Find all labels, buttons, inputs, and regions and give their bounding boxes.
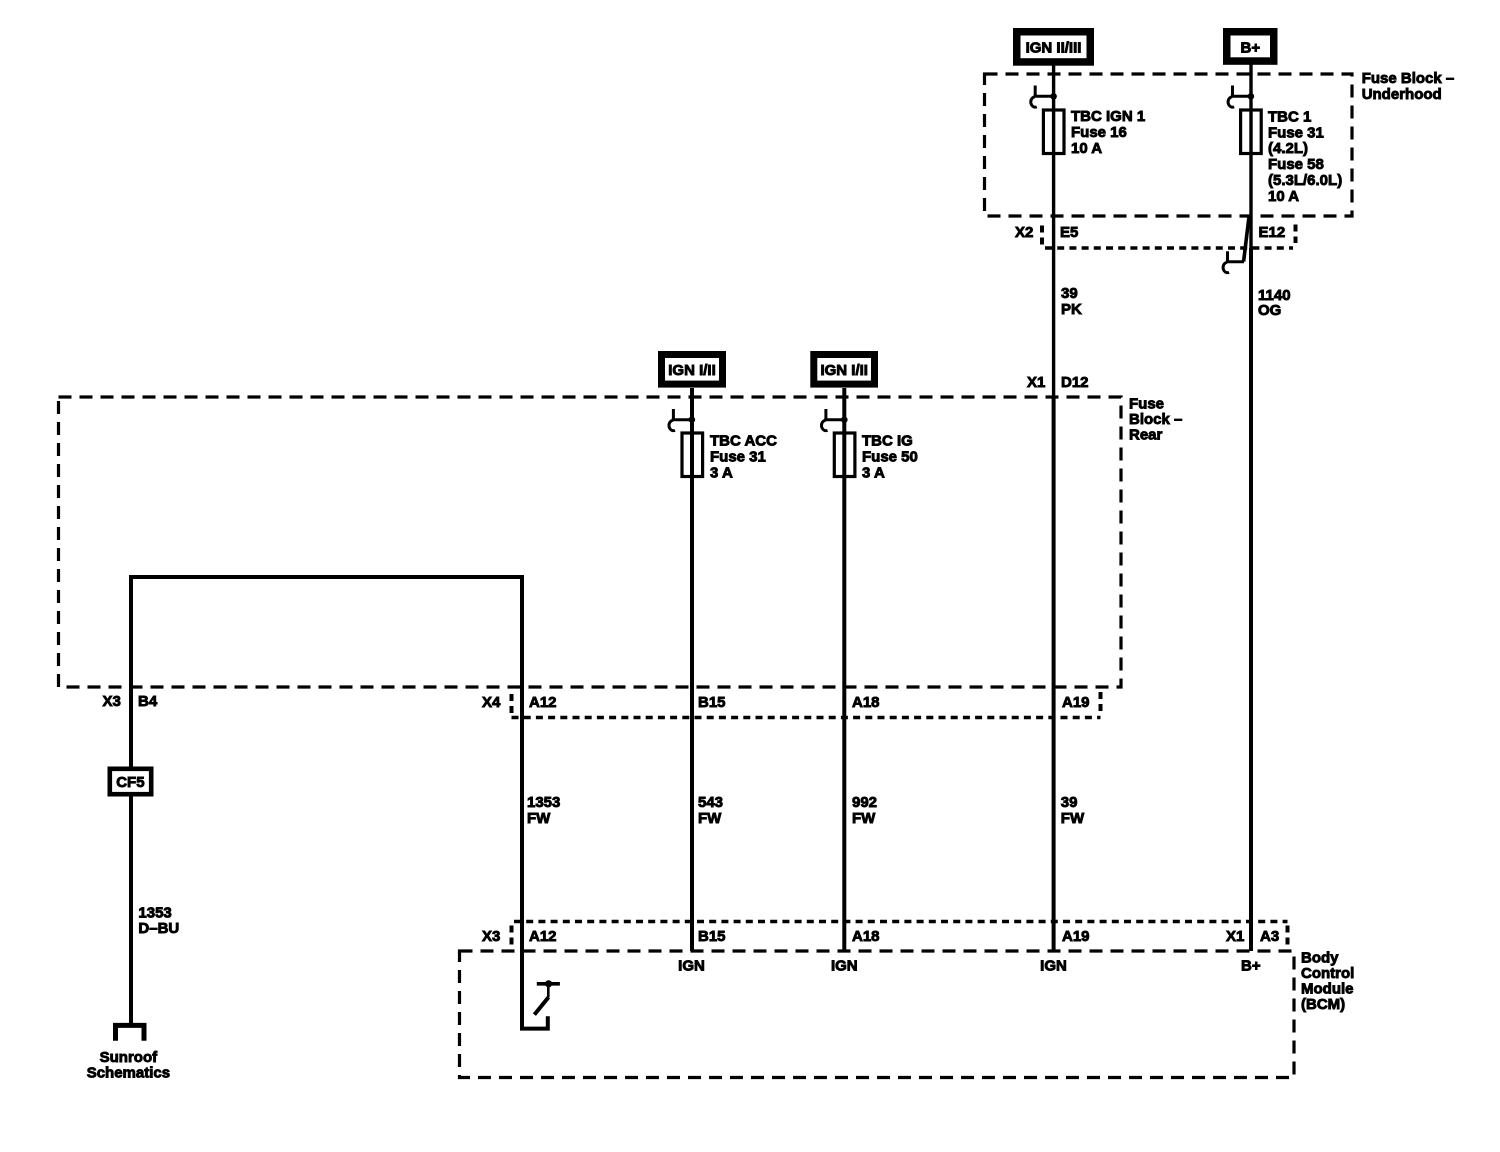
svg-text:A12: A12 [529,928,557,945]
svg-text:Block –: Block – [1129,411,1182,428]
svg-text:10 A: 10 A [1268,188,1299,205]
svg-text:992: 992 [852,794,877,811]
svg-text:X4: X4 [482,694,501,711]
svg-text:TBC 1: TBC 1 [1268,108,1311,125]
svg-text:B4: B4 [138,693,158,710]
svg-text:E12: E12 [1259,224,1286,241]
svg-text:FW: FW [852,810,876,827]
svg-text:IGN: IGN [678,958,705,975]
svg-text:TBC ACC: TBC ACC [710,433,777,450]
svg-text:Body: Body [1301,950,1339,967]
svg-text:543: 543 [698,794,723,811]
svg-text:Fuse: Fuse [1129,396,1164,413]
svg-text:3 A: 3 A [710,465,733,482]
svg-text:A12: A12 [529,694,557,711]
svg-text:X3: X3 [482,928,500,945]
svg-text:X1: X1 [1226,928,1244,945]
svg-text:Underhood: Underhood [1362,86,1442,103]
svg-text:Fuse 31: Fuse 31 [1268,124,1324,141]
svg-text:Fuse 58: Fuse 58 [1268,156,1324,173]
svg-text:IGN: IGN [831,958,858,975]
svg-text:FW: FW [1061,810,1085,827]
svg-text:IGN I/II: IGN I/II [820,362,868,379]
svg-text:Module: Module [1301,981,1354,998]
svg-text:A19: A19 [1062,928,1090,945]
svg-text:IGN II/III: IGN II/III [1026,39,1082,56]
svg-text:39: 39 [1061,285,1078,302]
svg-text:A3: A3 [1260,928,1279,945]
svg-text:1353: 1353 [138,905,171,922]
svg-text:A18: A18 [852,928,880,945]
svg-text:FW: FW [698,810,722,827]
svg-text:OG: OG [1258,302,1281,319]
svg-text:X2: X2 [1015,224,1033,241]
svg-text:39: 39 [1061,794,1078,811]
svg-text:CF5: CF5 [116,774,144,791]
svg-text:FW: FW [527,810,551,827]
svg-text:Rear: Rear [1129,427,1163,444]
svg-text:X3: X3 [103,693,121,710]
svg-text:Fuse 31: Fuse 31 [710,449,766,466]
svg-text:E5: E5 [1060,224,1078,241]
svg-text:TBC IG: TBC IG [862,433,913,450]
svg-text:Control: Control [1301,965,1354,982]
svg-text:Fuse Block –: Fuse Block – [1362,70,1455,87]
svg-text:10 A: 10 A [1071,140,1102,157]
svg-text:(4.2L): (4.2L) [1268,140,1308,157]
svg-text:D–BU: D–BU [138,920,179,937]
svg-text:IGN I/II: IGN I/II [668,362,716,379]
svg-text:3 A: 3 A [862,465,885,482]
svg-text:D12: D12 [1061,374,1089,391]
svg-text:(5.3L/6.0L): (5.3L/6.0L) [1268,172,1342,189]
svg-text:Schematics: Schematics [87,1064,170,1081]
svg-text:Fuse 50: Fuse 50 [862,449,918,466]
svg-text:A19: A19 [1062,694,1090,711]
svg-text:B15: B15 [698,694,726,711]
svg-text:B+: B+ [1241,958,1261,975]
svg-text:(BCM): (BCM) [1301,996,1345,1013]
svg-text:B15: B15 [698,928,726,945]
svg-text:IGN: IGN [1040,958,1067,975]
svg-text:X1: X1 [1027,374,1045,391]
svg-text:Fuse 16: Fuse 16 [1071,124,1127,141]
svg-text:1353: 1353 [527,794,560,811]
svg-text:B+: B+ [1241,39,1261,56]
svg-text:A18: A18 [852,694,880,711]
svg-text:TBC IGN 1: TBC IGN 1 [1071,108,1145,125]
svg-text:PK: PK [1061,301,1082,318]
